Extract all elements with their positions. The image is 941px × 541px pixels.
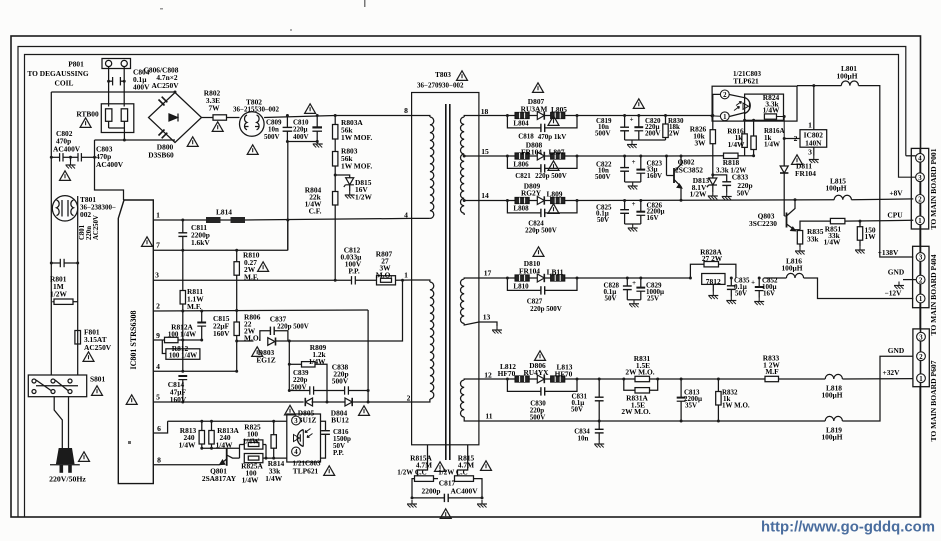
transistor Q802 (666, 156, 668, 176)
row 12: wire (479, 378, 515, 380)
svg-text:36−270930−002: 36−270930−002 (417, 82, 464, 90)
svg-text:T803: T803 (435, 70, 451, 79)
wire pin8 row (153, 464, 219, 466)
transformer T801 (52, 196, 77, 221)
svg-text:L807: L807 (548, 148, 564, 157)
svg-text:L806: L806 (513, 160, 529, 168)
regulator 7812 (690, 264, 704, 278)
wires R815A/R815 hang from box bottom (418, 445, 428, 476)
svg-text:2W: 2W (669, 130, 680, 138)
ground rail 15 (625, 181, 641, 183)
wire opto pin2 out to R826 column (713, 94, 721, 115)
thermistor RTB00 box (101, 104, 134, 133)
svg-text:27 2W: 27 2W (702, 254, 723, 263)
svg-text:AC250V: AC250V (93, 215, 100, 240)
svg-text:50V: 50V (571, 406, 583, 414)
svg-text:220p 500V: 220p 500V (535, 172, 567, 180)
svg-text:TO MAIN BOARD P607: TO MAIN BOARD P607 (929, 360, 938, 441)
wire pin2-row drop column (367, 310, 369, 402)
capacitor C829 electrolytic (640, 278, 642, 288)
wire right AC vertical (77, 196, 79, 375)
switch S801 (28, 375, 86, 397)
svg-text:1: 1 (156, 211, 160, 220)
resistor R826 (712, 116, 714, 130)
svg-text:16V: 16V (763, 290, 775, 298)
capacitor C815 electrolytic (201, 311, 203, 323)
capacitor C839 (289, 390, 310, 392)
svg-text:500V: 500V (291, 384, 307, 392)
inductor L814 bead1 (206, 217, 221, 223)
svg-text:+: + (632, 159, 636, 166)
wire pin7 row (153, 249, 287, 251)
wire R802 to T802 (227, 117, 240, 119)
svg-text:COIL: COIL (55, 79, 74, 88)
capacitor C824 loop (507, 201, 541, 213)
svg-text:1/4W: 1/4W (243, 437, 260, 446)
row 11 return wire (479, 420, 825, 422)
wire P801 right pin down (123, 67, 125, 107)
inductor L815 on +8V row (834, 195, 851, 200)
resistor R814 (273, 421, 275, 435)
svg-text:1W MOF.: 1W MOF. (341, 162, 372, 171)
fuse F801 (75, 331, 81, 345)
wire C-rail drop to D row (326, 391, 328, 403)
svg-text:1/2W: 1/2W (355, 193, 372, 202)
capacitor C834 (598, 421, 600, 429)
wire pin5 row (to D805/D804 and transformer pin2) (153, 401, 303, 403)
core lines (445, 104, 447, 460)
svg-text:3SC2230: 3SC2230 (749, 219, 777, 228)
svg-text:2: 2 (919, 354, 923, 361)
capacitor C810 electrolytic (316, 116, 318, 128)
svg-text:P.P.: P.P. (333, 449, 344, 457)
svg-text:1/4W: 1/4W (265, 474, 282, 483)
svg-text:50V: 50V (735, 290, 747, 298)
svg-text:100µH: 100µH (821, 433, 842, 442)
svg-text:1: 1 (919, 296, 923, 303)
svg-text:7: 7 (156, 241, 160, 250)
capacitor C832 electrolytic (758, 278, 760, 287)
resistor R832 (717, 379, 719, 392)
resistor R806 (234, 322, 239, 336)
inductor L816 (764, 277, 786, 279)
svg-text:160V: 160V (170, 395, 187, 404)
inductor L814 bead2 (231, 217, 246, 223)
svg-text:S801: S801 (90, 375, 106, 384)
svg-text:+: + (632, 280, 636, 287)
wire C817 loop (412, 479, 444, 498)
wire opto pin1 into box (712, 115, 720, 117)
wire pin3 row / snubber to transformer pin1 (153, 279, 351, 281)
resistor R812 boxed parallel (162, 340, 166, 354)
wire top rail / L801 (797, 85, 841, 87)
svg-text:100µH: 100µH (821, 391, 842, 400)
diode D806 (537, 375, 544, 383)
R803A/R803/R804 column (334, 116, 336, 125)
circled opto pins (292, 416, 301, 425)
svg-text:500V: 500V (595, 130, 611, 138)
svg-text:+: + (630, 117, 634, 124)
connector P404 box (913, 246, 929, 307)
svg-text:+8V: +8V (889, 189, 903, 198)
svg-text:CPU: CPU (887, 211, 903, 220)
wire to plug (54, 397, 62, 448)
svg-text:3: 3 (155, 271, 159, 280)
opto IC803 right half box (712, 86, 797, 121)
svg-text:9: 9 (156, 331, 160, 340)
wire bridge + output (202, 117, 214, 119)
svg-text:FR104: FR104 (521, 148, 542, 157)
wire C839/C838 rail column (288, 341, 290, 391)
svg-text:11: 11 (485, 412, 492, 421)
svg-text:AC400V: AC400V (53, 145, 81, 154)
wire C803 node vertical (95, 140, 124, 200)
resistors R831 / R831A parallel (624, 378, 635, 380)
wire pin9 stub (153, 339, 162, 341)
svg-text:35V: 35V (685, 402, 697, 410)
capacitor C831 (598, 379, 600, 397)
capacitor C837 above diode (260, 331, 271, 341)
opto IC803 left half box (287, 414, 321, 462)
svg-text:2: 2 (723, 92, 727, 99)
svg-text:3: 3 (919, 334, 923, 341)
svg-text:R812: R812 (172, 344, 189, 353)
connector P801 (102, 59, 131, 69)
resistor R815A (415, 476, 434, 482)
svg-text:+32V: +32V (883, 368, 901, 377)
resistor R818 (724, 153, 739, 158)
ground (313, 140, 323, 148)
svg-text:8: 8 (404, 106, 408, 115)
resistor 150 1W (859, 221, 861, 227)
wire P801 left pin down (108, 67, 110, 107)
svg-text:1: 1 (723, 114, 727, 121)
capacitor C826 electrolytic (640, 201, 642, 212)
wire AC line top (51, 91, 175, 93)
svg-text:16V: 16V (647, 214, 659, 222)
svg-text:100µH: 100µH (825, 184, 846, 193)
inductor LB11 (551, 275, 565, 281)
svg-text:M.F: M.F (765, 367, 779, 376)
inductor L818 (825, 374, 842, 379)
svg-text:2W M.O.: 2W M.O. (621, 407, 650, 416)
inductor L813 (551, 376, 565, 382)
resistor R833 (765, 376, 779, 381)
wire snubber rail to pin3 row (289, 280, 402, 341)
wire loop A into pin4 (906, 155, 916, 157)
svg-text:1/2W C.C: 1/2W C.C (397, 469, 426, 477)
inductor L807 (551, 153, 565, 159)
svg-text:L808: L808 (513, 205, 529, 213)
secondary winding lower (12-11) (464, 379, 479, 380)
wire cap ground rail (287, 141, 317, 143)
wire pin1-pin7 link column (287, 220, 289, 250)
svg-text:2SC3852: 2SC3852 (675, 166, 703, 175)
diode D808 (537, 152, 544, 160)
capacitor C823 electrolytic (640, 156, 642, 170)
svg-text:IC801 STRS6308: IC801 STRS6308 (129, 311, 138, 370)
svg-text:220p 500V: 220p 500V (530, 305, 562, 313)
svg-text:100µH: 100µH (781, 264, 802, 273)
svg-text:FR104: FR104 (519, 267, 540, 276)
svg-text:1W MOF.: 1W MOF. (341, 133, 372, 142)
resistors R825/R825A parallel boxed (239, 445, 241, 459)
svg-text:400V: 400V (293, 133, 309, 141)
capacitor C816 (321, 421, 326, 431)
warning triangles (80, 118, 91, 128)
resistor R811 (180, 291, 185, 305)
wire pin4 row (153, 370, 237, 372)
wire left AC vertical (50, 92, 52, 375)
svg-text:1: 1 (404, 271, 408, 280)
capacitor C821 loop (507, 156, 541, 168)
svg-text:4: 4 (156, 362, 160, 371)
svg-text:2200p: 2200p (422, 487, 441, 496)
capacitor C812 (351, 276, 353, 284)
svg-text:2: 2 (156, 302, 160, 311)
svg-text:AC250V: AC250V (84, 343, 112, 352)
svg-text:1/4W: 1/4W (824, 238, 841, 247)
plug 220V (56, 448, 75, 464)
diode D803 (268, 338, 275, 346)
capacitor C827 loop (507, 278, 541, 290)
svg-text:8: 8 (157, 456, 161, 465)
capacitor C809 (286, 116, 288, 128)
primary winding upper (pin8-pin4) (412, 116, 430, 118)
resistor R807 boxed (377, 276, 396, 285)
svg-text:100 1/4W: 100 1/4W (168, 330, 196, 338)
capacitor C801 (52, 262, 60, 264)
svg-text:140N: 140N (805, 138, 822, 147)
svg-text:100µH: 100µH (836, 72, 857, 81)
snubber D803/C837 (237, 340, 254, 342)
svg-text:4: 4 (294, 449, 298, 456)
svg-text:RG2Y: RG2Y (521, 189, 542, 198)
inductor L819 (825, 416, 842, 421)
svg-text:7W: 7W (208, 104, 220, 113)
capacitor C838 (344, 386, 346, 394)
svg-text:AC400V: AC400V (450, 487, 478, 496)
warning triangles (258, 262, 269, 272)
svg-text:13: 13 (483, 313, 491, 322)
svg-text:1/2W C.C: 1/2W C.C (438, 469, 467, 477)
resistor R810 (234, 262, 239, 276)
row 15: wire (479, 155, 515, 157)
svg-text:1W M.O.: 1W M.O. (722, 402, 750, 410)
svg-text:1W: 1W (865, 232, 877, 241)
svg-text:1: 1 (918, 218, 922, 225)
svg-text:M.F.: M.F. (244, 273, 259, 282)
resistor R801 (52, 301, 54, 303)
main primary column with C811/R811/C814 (182, 220, 184, 233)
inductor L806 (515, 153, 529, 159)
svg-text:RTB00: RTB00 (76, 110, 99, 119)
capacitor C813 electrolytic (680, 379, 682, 398)
svg-text:4: 4 (918, 156, 922, 163)
resistor R809 (289, 363, 301, 365)
svg-text:36−215530–002: 36−215530–002 (233, 106, 279, 114)
wire T802 to B+ line (264, 116, 412, 118)
diode D807 (537, 111, 544, 119)
svg-text:220p 500V: 220p 500V (277, 323, 309, 331)
inductor L804 (515, 113, 529, 119)
svg-text:HF70: HF70 (555, 370, 573, 379)
svg-text:1/2W: 1/2W (690, 190, 707, 199)
svg-text:AC250V: AC250V (151, 81, 179, 90)
svg-text:2SA817AY: 2SA817AY (202, 474, 237, 483)
svg-text:5: 5 (156, 393, 160, 402)
row 14: wire (479, 200, 515, 202)
IC U801: IC801 STR S6308 regulator block (118, 200, 153, 484)
svg-text:1/4W: 1/4W (242, 476, 259, 485)
svg-text:2W M.O.: 2W M.O. (625, 368, 654, 377)
svg-text:12: 12 (484, 371, 492, 380)
R813/R813A (201, 421, 203, 430)
junction nodes (107, 80, 110, 83)
resistor R802 (213, 115, 227, 120)
svg-text:1/4W: 1/4W (309, 357, 326, 366)
ground (66, 161, 76, 169)
svg-text:500V: 500V (595, 173, 611, 181)
svg-text:M.F.: M.F. (187, 302, 202, 311)
wire pin1 row (153, 219, 206, 221)
svg-text:1/4W: 1/4W (728, 140, 745, 149)
diode D805 (305, 398, 312, 406)
svg-text:P.P.: P.P. (348, 267, 360, 276)
svg-text:LB11: LB11 (547, 268, 564, 277)
svg-text:4: 4 (404, 211, 408, 220)
svg-text:1/4W: 1/4W (763, 105, 780, 114)
capacitor C835 (730, 278, 732, 286)
row 18: wire (479, 115, 515, 117)
capacitor C802 / C803 row (51, 156, 59, 158)
capacitor C830 loop (507, 379, 541, 391)
capacitor C820 electrolytic (638, 116, 640, 128)
resistor R851 (830, 218, 845, 223)
svg-text:220n: 220n (86, 226, 93, 240)
zener D813 (712, 175, 714, 178)
svg-text:BU12: BU12 (331, 416, 349, 425)
svg-text:RU4YX: RU4YX (523, 368, 549, 377)
svg-text:+: + (751, 280, 755, 287)
svg-text:1/2W: 1/2W (50, 290, 67, 299)
R810/R806 column (236, 250, 238, 261)
svg-text:M.O.: M.O. (244, 334, 261, 343)
svg-text:FR104: FR104 (795, 169, 816, 178)
svg-text:TLP621: TLP621 (733, 77, 759, 86)
transistor Q801 (226, 448, 228, 466)
svg-text:AC400V: AC400V (96, 160, 124, 169)
svg-text:50V: 50V (605, 295, 617, 303)
wire AC neutral rail (95, 139, 176, 141)
svg-text:2: 2 (407, 394, 411, 403)
svg-text:10n: 10n (578, 435, 589, 443)
svg-text:160V: 160V (213, 329, 230, 338)
svg-text:1: 1 (808, 121, 812, 130)
svg-text:3: 3 (808, 148, 812, 157)
GND stub P404 pin2 (903, 279, 916, 281)
svg-text:P801: P801 (68, 60, 84, 69)
ground rail 18 (625, 139, 666, 141)
svg-text:C821: C821 (515, 172, 531, 180)
svg-text:TLP621: TLP621 (293, 467, 319, 476)
capacitor C833 (713, 175, 727, 182)
svg-text:200V: 200V (645, 130, 661, 138)
wire pin6 stub jog (153, 421, 167, 433)
svg-text:1/4W: 1/4W (216, 441, 233, 450)
svg-text:L809: L809 (546, 190, 562, 199)
IC802 (800, 130, 827, 148)
svg-text:15: 15 (481, 147, 489, 156)
svg-text:33k: 33k (807, 234, 819, 243)
svg-text:500V: 500V (530, 414, 546, 422)
svg-text:GND: GND (888, 268, 904, 277)
svg-text:1: 1 (919, 376, 923, 383)
svg-text:18: 18 (481, 107, 489, 116)
svg-text:TO MAIN BOARD P001: TO MAIN BOARD P001 (929, 148, 938, 229)
svg-text:500V: 500V (264, 133, 280, 141)
svg-text:220V/50Hz: 220V/50Hz (49, 475, 86, 484)
diode D811 (780, 166, 788, 173)
svg-text:http://www.go-gddq.com: http://www.go-gddq.com (761, 520, 935, 536)
ground rail 14 (625, 223, 641, 225)
svg-text:1/4W: 1/4W (179, 441, 196, 450)
svg-text:50V: 50V (597, 216, 609, 224)
zener D815 (335, 175, 350, 178)
capacitor C817 (443, 494, 445, 502)
transformer T803 box (412, 93, 479, 445)
inductor L808 (515, 198, 529, 204)
capacitor C804 (109, 80, 113, 82)
capacitor C814 electrolytic (178, 375, 187, 377)
svg-text:TO MAIN BOARD P404: TO MAIN BOARD P404 (929, 254, 938, 335)
svg-text:160V: 160V (647, 172, 663, 180)
svg-text:HF70: HF70 (498, 369, 516, 378)
svg-text:25V: 25V (647, 295, 659, 303)
wire pin6 rail (168, 420, 287, 422)
svg-text:1.6kV: 1.6kV (191, 238, 210, 247)
resistor R824 (764, 114, 776, 119)
svg-text:L804: L804 (513, 120, 529, 128)
svg-text:D3SB60: D3SB60 (148, 151, 174, 160)
svg-text:14: 14 (481, 191, 489, 200)
connector P607 box (913, 329, 929, 387)
resistor R816 (744, 120, 746, 134)
svg-text:3: 3 (918, 175, 922, 182)
svg-text:TO DEGAUSSING: TO DEGAUSSING (27, 69, 89, 78)
svg-text:002: 002 (80, 210, 91, 219)
resistor R816A (753, 120, 755, 136)
wire pin13 stub to ground (479, 322, 497, 326)
secondary winding mid (17-13) (464, 278, 479, 279)
svg-text:500V: 500V (332, 377, 349, 386)
bridge rectifier D800 (149, 93, 202, 143)
svg-text:C.F.: C.F. (309, 207, 322, 216)
inductor L812 (515, 376, 529, 382)
svg-text:L814: L814 (216, 208, 232, 217)
inductor L805 (551, 113, 565, 119)
secondary winding upper (18-15-14) (464, 116, 479, 118)
capacitor C828 (626, 278, 628, 286)
inductor L809 (551, 198, 565, 204)
wire pin2 row (153, 310, 368, 311)
connector P001 box (911, 148, 928, 229)
svg-text:3W: 3W (694, 139, 706, 148)
svg-text:400V: 400V (133, 83, 150, 92)
transistor Q803 (786, 213, 788, 228)
junction dots (181, 219, 184, 222)
capacitor C818 loop (507, 116, 541, 128)
